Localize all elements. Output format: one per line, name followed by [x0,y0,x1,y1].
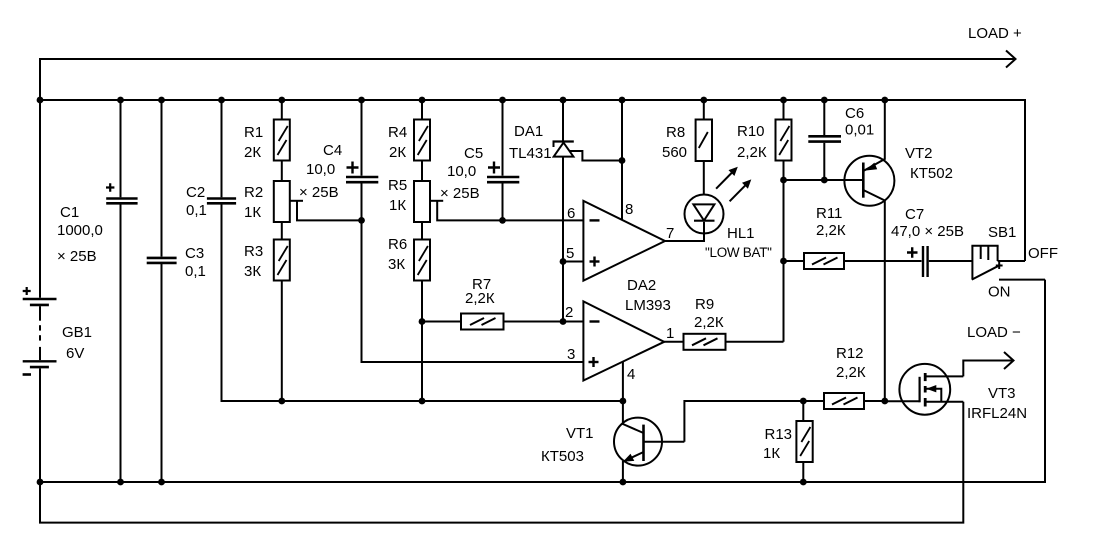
node junction rail-R10 [780,97,787,104]
node junction segA-R3 [278,398,285,405]
svg-text:0,1: 0,1 [185,263,206,280]
node junction gnd-R13 [800,479,807,486]
svg-text:0,1: 0,1 [186,202,207,219]
node junction rail-R8 [700,97,707,104]
svg-text:ON: ON [988,284,1011,301]
svg-text:R1: R1 [244,124,263,141]
svg-text:C4: C4 [323,142,342,159]
svg-text:10,0: 10,0 [447,163,476,180]
svg-text:2,2К: 2,2К [737,144,767,161]
node junction segA-pin4 [620,398,627,405]
svg-text:C1: C1 [60,204,79,221]
svg-text:C2: C2 [186,184,205,201]
battery GB1 [23,100,92,482]
svg-text:2: 2 [565,304,573,321]
svg-text:4: 4 [627,366,635,383]
wire ground rail y=482 [40,280,1045,482]
svg-text:2К: 2К [389,144,406,161]
transistor VT2 KT502 (PNP) [844,100,953,401]
resistor R5 (divider with tap) [388,161,583,223]
svg-text:HL1: HL1 [727,225,755,242]
svg-text:3К: 3К [388,256,405,273]
resistor R9 [664,296,783,350]
svg-text:R12: R12 [836,345,864,362]
op-amp DA2.1 comparator [566,201,674,281]
svg-text:OFF: OFF [1028,245,1058,262]
node junction zener-pin5 [560,258,567,265]
wire LOAD- arrow [963,324,1021,376]
svg-text:LM393: LM393 [625,297,671,314]
node junction gnd-C3 [158,479,165,486]
resistor R4 [388,100,430,161]
svg-text:1К: 1К [763,445,780,462]
svg-text:5: 5 [566,245,574,262]
node LOAD+ arrowhead [1006,51,1016,68]
node junction rail-DA1 [560,97,567,104]
resistor R2 (divider with tap) [244,161,362,223]
node junction rail-C2 [218,97,225,104]
svg-text:GB1: GB1 [62,324,92,341]
svg-text:2К: 2К [244,144,261,161]
capacitor C2 [186,100,236,219]
node junction zener-pin8 [619,157,626,164]
resistor R6 [388,222,430,401]
svg-text:10,0: 10,0 [306,161,335,178]
node junction rail-pin8 [619,97,626,104]
node junction gate-VT2c [881,398,888,405]
svg-text:R9: R9 [695,296,714,313]
wire pin4 drop [622,362,624,420]
voltage reference DA1 TL431 (zener) [509,100,622,322]
MOSFET VT3 IRFL24N [885,364,1027,422]
svg-text:1К: 1К [244,204,261,221]
capacitor C1 [57,100,138,482]
wire switched-ground line y=401 (C2,R3,R6,pin4) [222,203,623,401]
svg-text:C5: C5 [464,145,483,162]
node junction rail-C1 [117,97,124,104]
svg-text:DA2: DA2 [627,277,656,294]
svg-text:VT2: VT2 [905,145,933,162]
svg-text:47,0 × 25В: 47,0 × 25В [891,223,964,240]
svg-text:R6: R6 [388,236,407,253]
svg-text:LOAD +: LOAD + [968,25,1022,42]
svg-text:SB1: SB1 [988,224,1016,241]
node junction rail-battery [37,97,44,104]
svg-text:6V: 6V [66,345,84,362]
svg-text:× 25В: × 25В [299,184,339,201]
svg-text:1: 1 [666,325,674,342]
svg-text:VT3: VT3 [988,385,1016,402]
capacitor C5 [440,100,519,224]
svg-text:TL431: TL431 [509,145,552,162]
svg-text:1000,0: 1000,0 [57,222,103,239]
svg-text:IRFL24N: IRFL24N [967,405,1027,422]
node junction rail-C3 [158,97,165,104]
svg-text:3К: 3К [244,263,261,280]
node junction segA-R6 [419,398,426,405]
resistor R1 [244,100,290,161]
LED HL1 [665,167,772,260]
svg-text:КТ503: КТ503 [541,448,584,465]
svg-text:R10: R10 [737,123,765,140]
svg-text:2,2К: 2,2К [816,222,846,239]
svg-text:"LOW BAT": "LOW BAT" [705,245,772,260]
svg-text:R4: R4 [388,124,407,141]
svg-text:C7: C7 [905,206,924,223]
node junction gnd-VT1e [620,479,627,486]
node junction gate-R13 [800,398,807,405]
wire pin8 drop from rail [621,100,623,220]
wire VT2 base line [784,179,863,181]
node junction rail-R4 [419,97,426,104]
resistor R3 [244,222,290,401]
svg-text:2,2К: 2,2К [694,314,724,331]
svg-text:R2: R2 [244,184,263,201]
svg-text:C3: C3 [185,245,204,262]
wire top LOAD+ line [40,59,1014,100]
svg-text:1К: 1К [389,197,406,214]
resistor R12 [824,345,866,409]
svg-text:LOAD −: LOAD − [967,324,1021,341]
svg-text:R11: R11 [816,205,842,222]
svg-text:7: 7 [666,225,674,242]
svg-text:560: 560 [662,144,687,161]
node junction rail-C5 [499,97,506,104]
svg-text:R8: R8 [666,124,685,141]
svg-text:C6: C6 [845,105,864,122]
capacitor C4 [299,100,583,362]
svg-text:R3: R3 [244,243,263,260]
svg-text:2,2К: 2,2К [465,290,495,307]
resistor R8 [662,100,712,195]
wire pin5 stub [563,261,583,263]
node junction gnd-battery [37,479,44,486]
resistor R13 [763,401,813,482]
wire V+ rail y=100 [40,100,1025,261]
wire R12 to gate junction [864,400,885,402]
capacitor C3 [147,100,206,482]
resistor R11 [784,205,922,269]
node junction gnd-C1 [117,479,124,486]
svg-text:VT1: VT1 [566,425,594,442]
resistor R10 (pull-up) [737,100,792,342]
node junction rail-VT2e [881,97,888,104]
wire gate line y=401 (VT1 base riser to R12 to gate) [684,401,824,442]
node junction rail-R1 [278,97,285,104]
switch SB1 [971,224,1058,301]
svg-text:R13: R13 [765,426,793,443]
capacitor C7 [891,206,972,277]
svg-text:3: 3 [567,346,575,363]
svg-text:8: 8 [625,201,633,218]
node junction rail-C6 [821,97,828,104]
svg-text:КТ502: КТ502 [910,165,953,182]
svg-text:DA1: DA1 [514,123,543,140]
op-amp DA2.2 comparator [565,277,674,383]
resistor R7 [419,276,584,330]
node junction rail-C4 [358,97,365,104]
svg-text:2,2К: 2,2К [836,364,866,381]
svg-text:6: 6 [567,205,575,222]
svg-text:× 25В: × 25В [57,248,97,265]
capacitor C6 [808,100,874,183]
svg-text:0,01: 0,01 [845,122,874,139]
svg-text:× 25В: × 25В [440,185,480,202]
svg-text:R5: R5 [388,177,407,194]
transistor VT1 KT503 (NPN) [541,418,684,482]
wire bottom return rail y=522.6 [40,402,963,523]
